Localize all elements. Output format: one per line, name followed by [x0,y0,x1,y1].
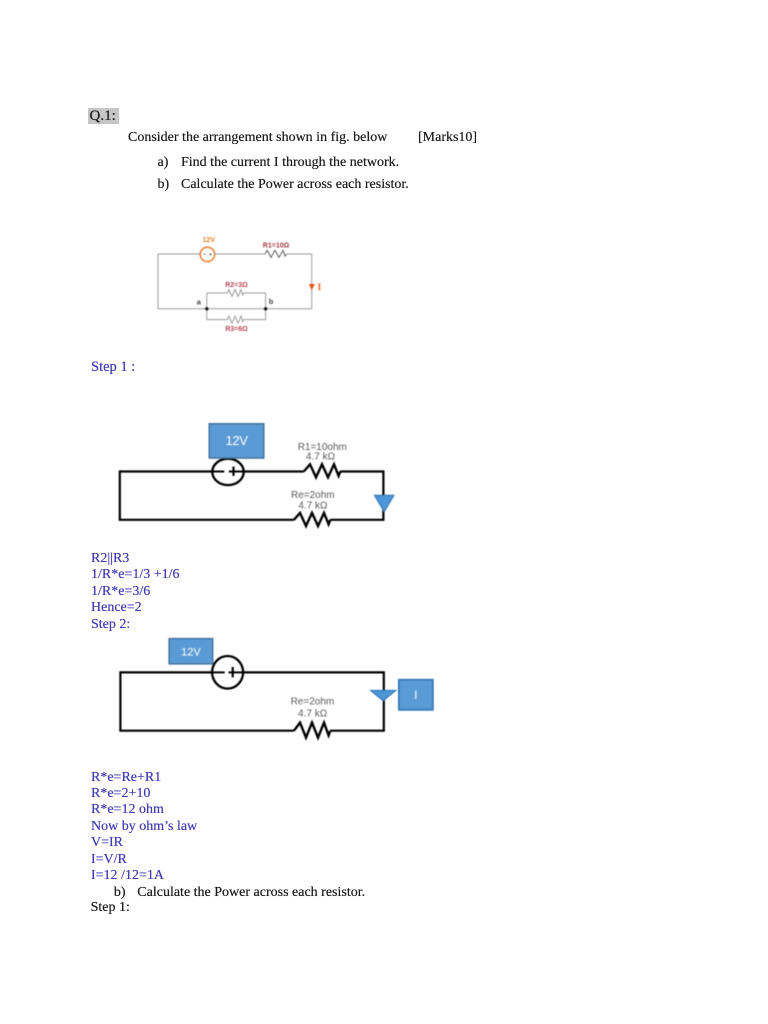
resistor Re zigzag [294,723,330,738]
svg-text:4.7 kΩ: 4.7 kΩ [298,709,328,720]
svg-text:12V: 12V [181,646,201,658]
equations block 2 [91,770,197,885]
wire top right [215,253,266,255]
item a [158,156,169,170]
resistor Re zigzag [294,513,330,526]
svg-text:4.7 kΩ: 4.7 kΩ [298,501,328,512]
item b repeated [114,886,126,900]
wire bottom right [330,519,385,521]
wire left vertical [157,254,159,309]
wire bottom right [330,730,385,732]
figure 3: step 2 equivalent circuit [100,630,440,745]
12V source box [169,639,213,664]
resistor R1 zigzag [304,464,340,477]
wire right vertical [383,671,385,730]
wire bottom left [119,519,294,521]
svg-text:R2=3Ω: R2=3Ω [225,282,248,289]
label I box [399,680,433,710]
item b [158,178,170,192]
wire inner-right vertical [265,293,267,320]
wire inner-left vertical [206,293,208,320]
figure 2: step 1 equivalent circuit [100,415,410,530]
svg-text:Re=2ohm: Re=2ohm [291,696,335,707]
equations block 1 [91,551,180,633]
wire top right [229,671,384,673]
wire left vertical [119,671,121,730]
svg-text:b: b [269,297,274,306]
voltage source circle 12V [200,247,214,261]
svg-text:I: I [318,282,322,292]
wire top to corner [340,470,383,472]
wire left vertical [119,470,121,519]
svg-text:a: a [197,298,202,307]
current arrow (blue triangle) [374,495,394,512]
svg-text:4.7 kΩ: 4.7 kΩ [306,452,336,463]
resistor R1 [265,250,287,257]
node b [264,307,267,310]
problem statement line [128,131,387,145]
wire top left [120,671,224,673]
wire bottom left [119,730,294,732]
svg-text:R1=10Ω: R1=10Ω [263,243,290,250]
wire to top-right corner [287,253,312,255]
svg-text:12V: 12V [202,237,215,244]
wire right vertical [382,470,384,519]
Step 1 : heading [91,360,135,375]
plus sign [232,467,234,476]
wire top right [229,470,304,472]
current arrow (blue triangle) [370,690,396,700]
voltage source circle [212,459,243,485]
12V source box [209,424,264,458]
resistor R3 (bottom branch) [207,316,266,323]
wire top left [158,253,200,255]
wire inner top branch [207,290,266,297]
wire right vertical [311,254,313,309]
svg-text:I: I [414,688,417,702]
current arrow I [309,284,315,290]
wire bottom main [158,308,312,310]
voltage source circle [212,656,243,689]
wire top left [120,470,225,472]
Q.1: heading with grey highlight [88,108,119,124]
figure 1: given network [150,228,335,340]
node a [205,307,208,310]
svg-text:R3=6Ω: R3=6Ω [225,326,248,333]
svg-text:12V: 12V [226,433,249,448]
plus sign [232,667,234,677]
Step 1: trailing [91,901,130,915]
